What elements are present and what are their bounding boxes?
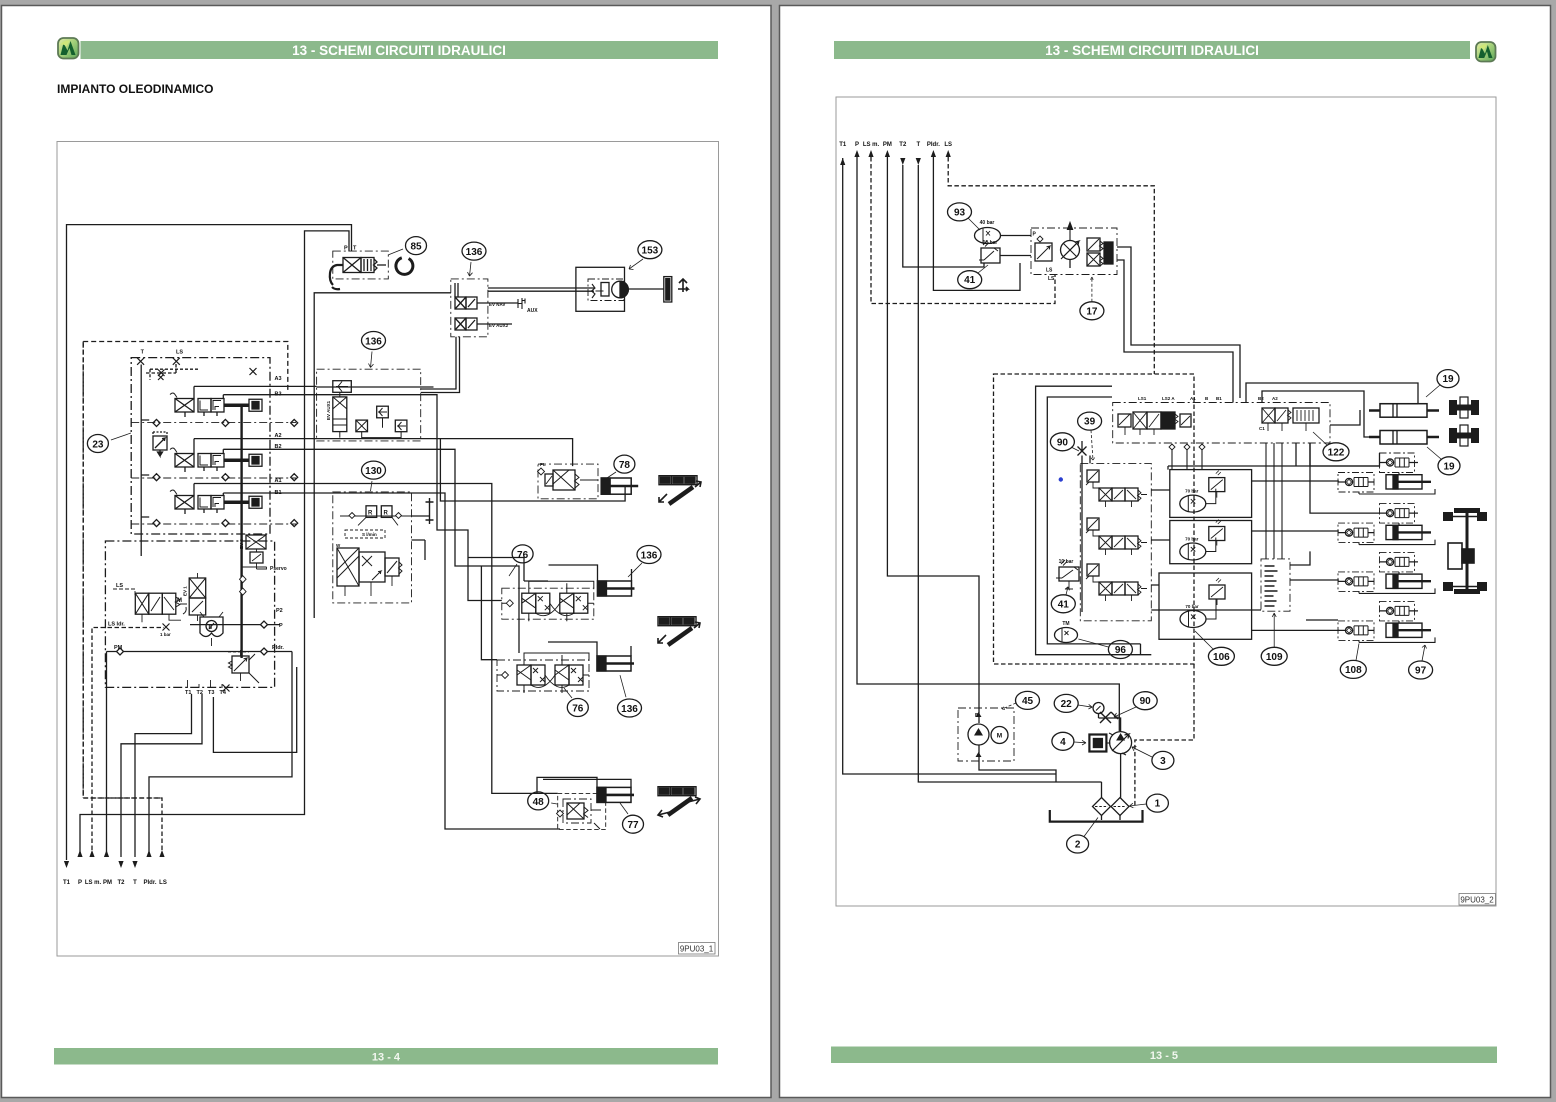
svg-text:13 - 4: 13 - 4 bbox=[372, 1052, 401, 1064]
svg-text:10 bar: 10 bar bbox=[1059, 559, 1074, 565]
forklift tilt icon 2 bbox=[658, 617, 700, 645]
svg-text:B2: B2 bbox=[1258, 396, 1264, 401]
svg-text:T1: T1 bbox=[63, 880, 71, 886]
svg-text:A1: A1 bbox=[275, 478, 282, 484]
svg-text:136: 136 bbox=[621, 704, 638, 715]
svg-text:A2: A2 bbox=[275, 433, 282, 439]
wire B1 to valve 48 lower bbox=[223, 493, 560, 829]
svg-text:P: P bbox=[344, 246, 348, 252]
svg-text:Pservo: Pservo bbox=[270, 566, 287, 572]
wire pair 136a to motor 153 bbox=[488, 288, 594, 291]
main dashed enclosure bbox=[994, 374, 1195, 664]
svg-text:97: 97 bbox=[1415, 666, 1427, 677]
wire riser x314 bbox=[314, 293, 451, 618]
axle icon lower bbox=[1449, 425, 1479, 446]
svg-text:LS: LS bbox=[159, 880, 167, 886]
svg-text:R: R bbox=[368, 511, 373, 517]
callout 136 cyl upper bbox=[628, 546, 661, 578]
svg-text:PM: PM bbox=[103, 880, 112, 886]
svg-text:T: T bbox=[133, 880, 137, 886]
callout 3 bbox=[1132, 747, 1174, 770]
pump 17 symbol bbox=[1061, 223, 1080, 269]
svg-text:106: 106 bbox=[1213, 652, 1230, 663]
forklift sway icon 3 bbox=[658, 787, 700, 817]
wire A3 stub bbox=[194, 385, 317, 387]
wire A1 to valve 48 bbox=[194, 484, 558, 794]
top port labels page2 bbox=[839, 142, 952, 148]
svg-text:2: 2 bbox=[1075, 840, 1081, 851]
steering lines into manifold 109 bbox=[1266, 443, 1282, 559]
diamond drops to group 1 bbox=[1172, 450, 1202, 470]
callout 39 bbox=[1078, 412, 1102, 460]
valve module section 2 bbox=[170, 448, 262, 472]
svg-text:M: M bbox=[997, 733, 1002, 740]
callout 108 bbox=[1340, 643, 1366, 678]
port labels A3 B3 A2 B2 A1 B1 bbox=[275, 376, 282, 496]
svg-text:90: 90 bbox=[1057, 437, 1069, 448]
tank collector T3 T4 bbox=[213, 667, 296, 752]
svg-text:77: 77 bbox=[627, 820, 639, 831]
dashed pilot branch bbox=[146, 362, 176, 374]
svg-text:122: 122 bbox=[1328, 447, 1345, 458]
lock valve row 3 bbox=[1338, 552, 1435, 593]
callout 19 lower bbox=[1427, 447, 1460, 475]
svg-text:T2: T2 bbox=[899, 142, 907, 148]
svg-text:P2: P2 bbox=[276, 608, 283, 614]
svg-text:LS: LS bbox=[116, 583, 123, 589]
steering valve right assembly bbox=[1259, 408, 1319, 431]
svg-text:78: 78 bbox=[619, 460, 631, 471]
svg-text:LS m.: LS m. bbox=[863, 142, 880, 148]
svg-text:B: B bbox=[975, 713, 979, 719]
wire P to pump rail and valve 85 bbox=[80, 231, 349, 857]
svg-text:136: 136 bbox=[466, 247, 483, 258]
callout 90 bottom bbox=[1114, 692, 1157, 717]
node X-mark T4 bbox=[223, 685, 230, 692]
pressure compensator in block 23 bbox=[153, 432, 167, 456]
page 1 footer bar bbox=[54, 1048, 718, 1065]
steering feeds down from 122 bbox=[1296, 443, 1380, 513]
svg-text:93: 93 bbox=[954, 207, 966, 218]
svg-text:153: 153 bbox=[642, 246, 659, 257]
callout 109 bbox=[1261, 613, 1287, 665]
svg-text:LS Idr.: LS Idr. bbox=[108, 622, 125, 628]
svg-text:T4: T4 bbox=[220, 690, 227, 696]
node LS X-mark bbox=[173, 358, 180, 365]
wire PM to PIdr horizontal bbox=[107, 651, 293, 653]
page 1 diagram frame bbox=[57, 142, 719, 957]
wire rail heavy bbox=[240, 404, 242, 658]
callout 122 bbox=[1313, 432, 1349, 461]
svg-text:PIdr.: PIdr. bbox=[927, 142, 940, 148]
emergency pump 45 box bbox=[958, 708, 1014, 761]
block section 2 bbox=[1086, 518, 1147, 555]
svg-text:70 bar: 70 bar bbox=[1185, 604, 1199, 609]
solenoid EV4 bbox=[239, 535, 287, 595]
callout 136 mid bbox=[362, 332, 386, 368]
wire T rail in block bbox=[141, 365, 149, 557]
page 2 drawing code box 9PU03_2 bbox=[1459, 894, 1496, 906]
callout 136 cyl lower bbox=[618, 675, 642, 717]
top port arrows page2 bbox=[840, 150, 951, 165]
wire P down to tank bbox=[857, 157, 1119, 731]
svg-text:19: 19 bbox=[1442, 374, 1454, 385]
block 23 inner dash-dot enclosure bbox=[131, 358, 270, 534]
suspension accumulator group 3 bbox=[1159, 573, 1252, 639]
wire LSm dashed to pump LS bbox=[871, 157, 1055, 304]
valve module section 3 bbox=[170, 490, 262, 514]
steering priority line down bbox=[1123, 351, 1125, 353]
callout 106 bbox=[1195, 631, 1234, 665]
svg-text:P: P bbox=[279, 623, 283, 629]
dash-dot pilot line row2 bbox=[131, 477, 296, 479]
svg-text:19: 19 bbox=[1443, 461, 1455, 472]
svg-text:LS: LS bbox=[1046, 268, 1053, 274]
page 2 footer bar bbox=[831, 1047, 1497, 1064]
counterbalance block 76a bbox=[502, 581, 594, 621]
svg-text:T1: T1 bbox=[839, 142, 847, 148]
lock valve row 4 bbox=[1338, 601, 1435, 642]
svg-text:90: 90 bbox=[1140, 696, 1152, 707]
oil tank bbox=[1050, 810, 1143, 822]
block to rows return wires bbox=[1141, 453, 1380, 655]
breakaway coupling ring by valve 85 bbox=[393, 254, 416, 277]
callout 97 bbox=[1409, 645, 1433, 679]
forklift tilt icon 1 bbox=[659, 476, 701, 504]
callout 90 bbox=[1050, 433, 1079, 451]
page 2 header logo bbox=[1476, 42, 1496, 62]
svg-text:EV NAV: EV NAV bbox=[489, 302, 505, 307]
suction filter 2 bbox=[1093, 782, 1111, 820]
bottom port arrows bbox=[64, 850, 165, 868]
svg-text:9PU03_1: 9PU03_1 bbox=[680, 945, 714, 954]
wires 122 to cylinders 19 bbox=[1246, 383, 1418, 404]
svg-text:B1: B1 bbox=[275, 490, 282, 496]
page 1 header bar bbox=[81, 41, 719, 59]
port labels on 122 bbox=[1138, 396, 1278, 401]
svg-text:TM: TM bbox=[1062, 621, 1069, 627]
svg-text:P: P bbox=[78, 880, 82, 886]
svg-text:T1: T1 bbox=[185, 690, 191, 696]
labels P P2 PIdr PM T1-T4 bbox=[114, 608, 284, 696]
svg-text:4: 4 bbox=[1060, 737, 1066, 748]
node diamond P line bbox=[261, 621, 268, 628]
callout 130 bbox=[362, 461, 386, 491]
suspension accumulator group 1 bbox=[1170, 470, 1252, 518]
cylinder for 78 bbox=[601, 478, 638, 494]
block section 1 bbox=[1086, 470, 1147, 507]
callout 45 bbox=[1002, 691, 1040, 709]
svg-text:EV 4: EV 4 bbox=[239, 539, 244, 549]
svg-text:T2: T2 bbox=[117, 880, 125, 886]
cylinder 136 lower bbox=[548, 642, 634, 671]
svg-text:70 bar: 70 bar bbox=[1185, 537, 1199, 542]
callout 76 upper bbox=[509, 545, 533, 576]
callout 19 upper bbox=[1426, 370, 1459, 397]
wire PM riser bbox=[106, 652, 108, 858]
bleed X node 90 bbox=[1078, 441, 1087, 456]
svg-text:13 - SCHEMI CIRCUITI IDRAULICI: 13 - SCHEMI CIRCUITI IDRAULICI bbox=[1045, 43, 1259, 58]
page 2 diagram frame bbox=[836, 97, 1496, 906]
axle icon upper bbox=[1449, 397, 1479, 418]
svg-text:13 - 5: 13 - 5 bbox=[1150, 1050, 1178, 1062]
page 1 header logo bbox=[58, 38, 79, 59]
shutoff X 90b bbox=[1099, 712, 1121, 732]
callout 78 bbox=[604, 455, 635, 480]
svg-text:136: 136 bbox=[365, 336, 382, 347]
accumulator TM 96 bbox=[1055, 621, 1078, 643]
electric motor circle bbox=[989, 727, 1008, 744]
counterbalance block 76b bbox=[497, 653, 589, 693]
svg-text:LS2 A: LS2 A bbox=[1162, 396, 1175, 401]
dash-dot pilot line row1 bbox=[131, 421, 296, 423]
wire PM to emergency pump 45 bbox=[887, 157, 979, 723]
emergency pump circle bbox=[968, 712, 989, 757]
hand pump valve 85 group bbox=[330, 246, 389, 290]
main relief valve bbox=[228, 650, 259, 683]
cylinder 136 upper bbox=[549, 565, 635, 596]
svg-text:S l/min: S l/min bbox=[362, 532, 377, 537]
feed line 2 pump to block bbox=[1117, 260, 1233, 403]
dash-dot pilot line row3 bbox=[131, 523, 296, 525]
aux manifold 136 lower bbox=[317, 369, 421, 441]
svg-text:108: 108 bbox=[1345, 665, 1362, 676]
accumulator 93 bbox=[975, 220, 1032, 244]
dashed pilot line upper bbox=[150, 369, 200, 380]
svg-text:A1: A1 bbox=[1190, 396, 1196, 401]
svg-text:R: R bbox=[384, 511, 389, 517]
callout 4 bbox=[1052, 732, 1086, 750]
wire T2 to valve 41 bbox=[903, 165, 984, 267]
callout 76 lower bbox=[564, 688, 588, 717]
steering cylinder 19 upper bbox=[1369, 404, 1439, 418]
svg-text:PM: PM bbox=[114, 645, 123, 651]
svg-text:C1: C1 bbox=[1259, 426, 1265, 431]
svg-text:PIdr.: PIdr. bbox=[272, 645, 284, 651]
svg-text:AUX: AUX bbox=[527, 308, 538, 314]
wire T1 down-left bbox=[843, 158, 1056, 774]
pump group 17 box bbox=[1031, 228, 1117, 275]
callout 41 mid bbox=[1051, 587, 1075, 613]
LS selector solenoid valve bbox=[113, 583, 187, 622]
svg-text:1: 1 bbox=[1155, 799, 1161, 810]
wire LS dashed top run bbox=[948, 157, 1154, 374]
pump 45 drain bbox=[979, 745, 1056, 782]
svg-text:IMPIANTO OLEODINAMICO: IMPIANTO OLEODINAMICO bbox=[57, 82, 213, 96]
pressure switch 41a bbox=[979, 240, 1031, 263]
steering valve block 122 box bbox=[1113, 403, 1330, 444]
svg-text:PL: PL bbox=[540, 462, 546, 467]
priority valve body bbox=[200, 612, 223, 646]
svg-text:96: 96 bbox=[1115, 645, 1127, 656]
svg-text:A3: A3 bbox=[275, 376, 282, 382]
svg-text:70 bar: 70 bar bbox=[1185, 489, 1199, 494]
svg-text:LS: LS bbox=[176, 350, 183, 356]
svg-text:B1: B1 bbox=[1216, 396, 1222, 401]
suction filter 1 bbox=[1111, 754, 1129, 820]
wire T2 riser bbox=[121, 694, 202, 857]
svg-text:45: 45 bbox=[1022, 696, 1034, 707]
svg-text:109: 109 bbox=[1266, 652, 1283, 663]
callout 41 top bbox=[958, 265, 988, 289]
callout 96 bbox=[1078, 639, 1132, 659]
callout 85 bbox=[388, 237, 427, 255]
lock valve row 1 bbox=[1338, 453, 1435, 494]
callout 153 bbox=[629, 241, 662, 270]
svg-text:136: 136 bbox=[641, 550, 658, 561]
svg-text:PM: PM bbox=[883, 142, 892, 148]
wire T1 loop to valve 85 bbox=[67, 225, 352, 860]
pressure gauge 22 bbox=[1093, 703, 1104, 719]
wire 136a outputs down to box 136b bbox=[421, 337, 460, 393]
wire 136b internal rail bbox=[317, 386, 434, 388]
node X-mark pilot bbox=[158, 370, 165, 377]
block section 3 bbox=[1086, 564, 1147, 601]
wire 130 stubs bbox=[412, 516, 430, 560]
motor M 4 bbox=[1089, 735, 1110, 752]
valve module section 1 bbox=[170, 393, 262, 417]
LS shuttle diamonds row3 bbox=[153, 520, 298, 527]
module output risers bbox=[194, 386, 223, 495]
axle lock rows connecting wires bbox=[1151, 490, 1170, 585]
big loop 2 around main block bbox=[1047, 397, 1140, 644]
svg-text:LS: LS bbox=[944, 142, 952, 148]
page 2 header bar bbox=[834, 41, 1470, 59]
svg-text:10 bar: 10 bar bbox=[983, 240, 998, 246]
svg-text:LS m.: LS m. bbox=[85, 880, 102, 886]
callout 23 bbox=[87, 433, 130, 453]
blue dot bbox=[1059, 477, 1063, 481]
svg-text:B: B bbox=[209, 625, 213, 631]
node diamond PM line bbox=[117, 648, 268, 655]
wire T to filters bbox=[918, 165, 1101, 782]
svg-text:85: 85 bbox=[410, 242, 422, 253]
callout 1 bbox=[1129, 794, 1168, 812]
svg-text:22: 22 bbox=[1061, 699, 1073, 710]
main control valve block dash-dot bbox=[1080, 463, 1151, 620]
wire B2 to block 76b bbox=[223, 449, 519, 659]
svg-text:3: 3 bbox=[1160, 756, 1166, 767]
bottom manifold dash-dot enclosure bbox=[105, 541, 274, 687]
feed lines pump to valve block bbox=[1117, 247, 1240, 398]
dashed drain tail to tank bbox=[1135, 664, 1194, 808]
wire T riser bbox=[135, 694, 192, 857]
callout 17 bbox=[1080, 277, 1104, 320]
steering valve left assembly bbox=[1118, 412, 1191, 435]
brake valve unit 130 bbox=[333, 492, 434, 603]
wire PIdr loop bbox=[933, 157, 1020, 290]
svg-text:76: 76 bbox=[572, 703, 584, 714]
block 23 outer dashed enclosure bbox=[83, 342, 288, 799]
svg-text:P: P bbox=[855, 142, 859, 148]
svg-text:EV 1: EV 1 bbox=[183, 586, 188, 596]
node T X-mark bbox=[137, 358, 144, 365]
cylinder 77 bbox=[537, 777, 634, 802]
rear axle assembly icon bbox=[1443, 508, 1487, 594]
LS shuttle diamonds row1 bbox=[153, 419, 298, 426]
svg-text:B3: B3 bbox=[275, 392, 282, 398]
solenoid EV1 bbox=[183, 573, 206, 621]
sway valve 48 bbox=[557, 793, 606, 829]
solenoid box 136 upper bbox=[451, 279, 538, 337]
svg-text:LS: LS bbox=[1048, 276, 1055, 282]
page 1 drawing code box 9PU03_1 bbox=[679, 943, 716, 955]
svg-text:17: 17 bbox=[1086, 306, 1098, 317]
port diamonds under 122 bbox=[1169, 444, 1205, 450]
bottom port labels bbox=[63, 880, 167, 886]
callout 77 bbox=[620, 803, 644, 833]
svg-text:9PU03_2: 9PU03_2 bbox=[1460, 896, 1494, 905]
wire PIdr riser bbox=[149, 652, 292, 858]
drain stubs to T labels bbox=[188, 680, 223, 688]
callout 93 bbox=[948, 203, 981, 230]
svg-text:1 bar: 1 bar bbox=[160, 632, 171, 637]
svg-text:41: 41 bbox=[964, 275, 976, 286]
callout 136 top bbox=[462, 242, 486, 276]
riser into block bbox=[1082, 456, 1090, 613]
pump 17 right control valves bbox=[1046, 238, 1113, 274]
big loop 1 around main block bbox=[1036, 386, 1152, 655]
svg-text:T: T bbox=[916, 142, 920, 148]
svg-text:39: 39 bbox=[1084, 417, 1096, 428]
steering column icon bbox=[664, 277, 688, 302]
svg-text:41: 41 bbox=[1058, 599, 1070, 610]
svg-text:23: 23 bbox=[92, 439, 104, 450]
svg-text:40 bar: 40 bar bbox=[980, 220, 995, 226]
fan motor unit 153 bbox=[576, 267, 664, 311]
svg-text:48: 48 bbox=[533, 797, 545, 808]
lock valve row 2 bbox=[1338, 504, 1435, 545]
svg-text:T3: T3 bbox=[208, 690, 214, 696]
callout 48 bbox=[528, 792, 558, 810]
node X-mark LS idr bbox=[163, 624, 170, 631]
svg-text:A2: A2 bbox=[1272, 396, 1278, 401]
svg-text:M: M bbox=[177, 598, 182, 604]
svg-text:EV AUX2: EV AUX2 bbox=[489, 323, 509, 328]
node X-mark small bbox=[158, 375, 164, 381]
wire LSm dashed bbox=[92, 628, 164, 858]
pump 17 left compensator bbox=[1033, 232, 1053, 262]
svg-text:T2: T2 bbox=[197, 690, 203, 696]
svg-text:EV AUX1: EV AUX1 bbox=[326, 400, 331, 420]
trailer brake valve 78 bbox=[538, 462, 599, 499]
svg-text:LS1: LS1 bbox=[1138, 396, 1147, 401]
wire B3 to block 76a bbox=[223, 395, 548, 601]
LS shuttle diamonds row2 bbox=[153, 474, 298, 481]
svg-text:PIdr.: PIdr. bbox=[143, 880, 156, 886]
node X-mark on rail bbox=[250, 368, 257, 375]
unloader valve 41b bbox=[1056, 559, 1079, 589]
suspension accumulator group 2 bbox=[1170, 520, 1252, 564]
svg-text:B2: B2 bbox=[275, 444, 282, 450]
wire A2 long to valve 78 bbox=[194, 439, 625, 501]
steering cylinder 19 lower bbox=[1369, 431, 1439, 445]
lock manifold 109 bbox=[1261, 559, 1290, 611]
svg-text:76: 76 bbox=[517, 550, 529, 561]
wire P distribution line bbox=[190, 624, 280, 626]
callout 22 bbox=[1054, 694, 1092, 712]
page 2 sheet bbox=[780, 6, 1551, 1098]
hydraulic pump 3 bbox=[1109, 732, 1132, 755]
svg-text:13 - SCHEMI CIRCUITI IDRAULICI: 13 - SCHEMI CIRCUITI IDRAULICI bbox=[292, 43, 506, 58]
callout 2 bbox=[1067, 818, 1098, 854]
wire LS dashed riser bbox=[83, 342, 162, 858]
svg-text:130: 130 bbox=[365, 466, 382, 477]
page 1 sheet bbox=[2, 6, 772, 1098]
